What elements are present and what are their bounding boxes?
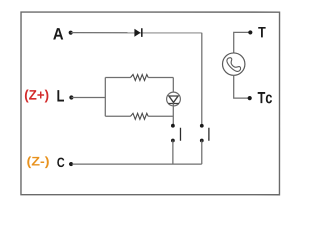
resistor R2 <box>130 113 148 119</box>
switch S1 <box>171 124 181 143</box>
wire <box>104 77 106 116</box>
node A <box>69 31 73 35</box>
terminal label C <box>57 158 64 168</box>
wire <box>201 141 203 165</box>
switch S2 <box>200 124 209 143</box>
node Tc <box>248 96 252 100</box>
terminal label (Z+) <box>25 90 49 103</box>
node C <box>69 162 73 166</box>
wire <box>148 76 173 78</box>
wire <box>234 75 250 98</box>
wire <box>172 78 174 93</box>
wire <box>71 32 202 34</box>
wire <box>172 103 174 125</box>
wire <box>105 76 130 78</box>
diode D1 <box>134 28 141 37</box>
wire <box>72 163 202 165</box>
terminal label Tc <box>258 92 272 103</box>
earphone P1 <box>223 53 245 75</box>
wire <box>172 141 174 165</box>
wire <box>71 96 105 98</box>
resistor R1 <box>131 74 149 80</box>
wire <box>234 32 251 53</box>
wire <box>201 33 203 126</box>
node L <box>69 95 73 99</box>
node T <box>248 30 252 34</box>
terminal label (Z-) <box>27 156 49 168</box>
terminal label T <box>258 27 265 37</box>
wire <box>105 115 130 117</box>
LED DL1 <box>167 92 181 106</box>
wire <box>148 115 173 117</box>
terminal label A <box>53 28 63 39</box>
terminal label L <box>57 90 64 101</box>
